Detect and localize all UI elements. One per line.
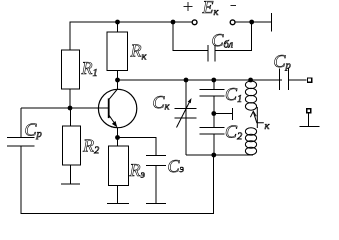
- transistor VT1: [98, 89, 136, 128]
- capacitor C1: [200, 80, 225, 127]
- svg-text:Eк: Eк: [202, 0, 219, 18]
- terminal minus: [230, 20, 235, 25]
- node coil top: [248, 78, 253, 83]
- svg-text:Rк: Rк: [130, 41, 147, 63]
- capacitor C_p input: [7, 108, 34, 146]
- label minus: [231, 5, 237, 7]
- wire emitter stem: [117, 128, 119, 138]
- wire R1 bottom: [69, 89, 71, 108]
- svg-text:к: к: [265, 121, 270, 132]
- svg-text:Cр: Cр: [274, 51, 291, 72]
- svg-text:R2: R2: [82, 136, 100, 157]
- wire base rail: [21, 107, 109, 109]
- svg-text:C1: C1: [225, 84, 242, 105]
- resistor R1: [62, 50, 80, 89]
- node C_bl left top: [171, 20, 176, 25]
- ground R_e: [107, 186, 129, 204]
- wire coil gap: [256, 107, 258, 128]
- node C_k top: [184, 78, 189, 83]
- wire R_k bottom stem: [117, 70, 119, 80]
- ground C_e: [146, 166, 166, 204]
- node C1 C2 midpoint: [211, 111, 216, 116]
- wire C_bl left drop: [173, 22, 208, 51]
- ground output: [300, 113, 320, 127]
- resistor R2: [63, 108, 81, 165]
- terminal output bottom: [307, 109, 311, 113]
- wire emitter to C_e: [118, 138, 157, 156]
- wire collector stem: [117, 80, 119, 89]
- wire R_k top stem: [117, 22, 119, 32]
- node emitter: [115, 135, 120, 140]
- terminal output top: [308, 78, 312, 82]
- ground R2: [61, 165, 80, 184]
- svg-text:Cк: Cк: [153, 92, 170, 113]
- arrow coil adjust: [250, 111, 263, 123]
- wire top rail left: [70, 22, 173, 50]
- node R_k top: [115, 20, 120, 25]
- wire midpoint stub: [214, 108, 233, 120]
- svg-text:Rэ: Rэ: [129, 160, 146, 181]
- svg-text:R1: R1: [81, 58, 98, 79]
- inductor L_k: [245, 81, 256, 155]
- node tank bottom: [211, 153, 216, 158]
- wire collector rail: [118, 79, 283, 81]
- svg-text:Cбл: Cбл: [212, 30, 234, 51]
- resistor R_e: [109, 138, 129, 186]
- label plus: [184, 2, 193, 11]
- node collector: [115, 78, 120, 83]
- svg-text:C2: C2: [225, 122, 243, 143]
- node base divider: [68, 106, 73, 111]
- wire from minus terminal: [235, 21, 272, 23]
- capacitor C_bl: [208, 45, 215, 62]
- capacitor C2: [200, 127, 225, 155]
- resistor R_k: [107, 32, 128, 70]
- wire left down: [21, 146, 214, 214]
- capacitor C_p output: [279, 68, 306, 90]
- capacitor C_e: [146, 156, 166, 166]
- terminal bar top right: [271, 13, 273, 32]
- svg-text:Cэ: Cэ: [168, 156, 185, 176]
- node C_bl right top: [249, 20, 254, 25]
- svg-text:Cр: Cр: [25, 120, 42, 141]
- wire to plus terminal: [173, 21, 192, 23]
- wire C_bl right drop: [215, 22, 252, 51]
- capacitor C_k variable: [174, 80, 196, 155]
- node C1 top: [211, 78, 216, 83]
- wire tank bottom: [186, 154, 253, 156]
- terminal plus: [192, 20, 197, 25]
